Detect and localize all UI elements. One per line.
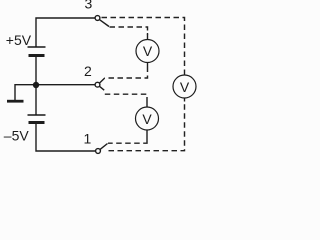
node ground junction dot <box>33 82 39 88</box>
wire top rail from +5V battery to terminal 3 <box>36 18 95 47</box>
svg-text:V: V <box>143 43 153 59</box>
wire stub terminal 3 down-right <box>99 20 109 27</box>
svg-text:3: 3 <box>85 0 93 12</box>
wire dashed terminal 1 to voltmeter U3 bottom <box>109 102 185 151</box>
terminal 3 <box>95 16 100 21</box>
wire ground node to -5V battery <box>35 85 37 115</box>
wire dashed voltmeter U2 bottom to terminal 1 upper stub <box>108 142 147 144</box>
voltmeter U1 body <box>136 40 159 63</box>
terminal 1 <box>96 149 101 154</box>
voltmeter U1 top lead <box>147 33 149 40</box>
wire battery V1 to ground node <box>35 57 37 85</box>
svg-text:1: 1 <box>84 131 92 147</box>
voltmeter U3 body <box>173 75 196 98</box>
ground <box>7 100 24 103</box>
battery V2 -5V negative plate <box>29 121 45 124</box>
voltmeter U1 bottom lead <box>147 63 149 67</box>
wire bottom rail -5V battery to terminal 1 <box>36 124 96 151</box>
voltmeter U2 top lead <box>146 103 148 108</box>
svg-text:2: 2 <box>84 63 92 79</box>
voltmeter U2 body <box>136 107 159 130</box>
svg-text:+5V: +5V <box>6 32 32 48</box>
svg-text:V: V <box>142 111 152 127</box>
wire dashed terminal 3 to voltmeter U3 top <box>102 18 185 72</box>
terminal 2 <box>95 82 100 87</box>
wire ground node to ground symbol <box>15 85 36 100</box>
wire dashed voltmeter U1 bottom to terminal 2 upper stub <box>105 67 148 79</box>
wire dashed terminal 3 stub to voltmeter U1 top <box>110 27 148 35</box>
wire stub terminal 2 up-right <box>99 78 104 83</box>
wire stub terminal 2 down-right <box>99 86 104 90</box>
svg-text:–5V: –5V <box>4 127 30 143</box>
wire stub terminal 1 up-right <box>100 144 108 150</box>
battery V1 +5V negative plate <box>29 54 45 57</box>
battery V1 +5V positive plate <box>28 46 46 48</box>
battery V2 -5V positive plate <box>28 114 46 116</box>
voltmeter U3 top lead <box>184 72 186 76</box>
wire dashed terminal 2 lower stub to voltmeter U2 top <box>105 94 147 102</box>
voltmeter U3 bottom lead <box>184 98 186 102</box>
voltmeter U2 bottom lead <box>146 130 148 142</box>
wire middle rail ground node to terminal 2 <box>36 84 95 86</box>
svg-text:V: V <box>180 79 190 95</box>
